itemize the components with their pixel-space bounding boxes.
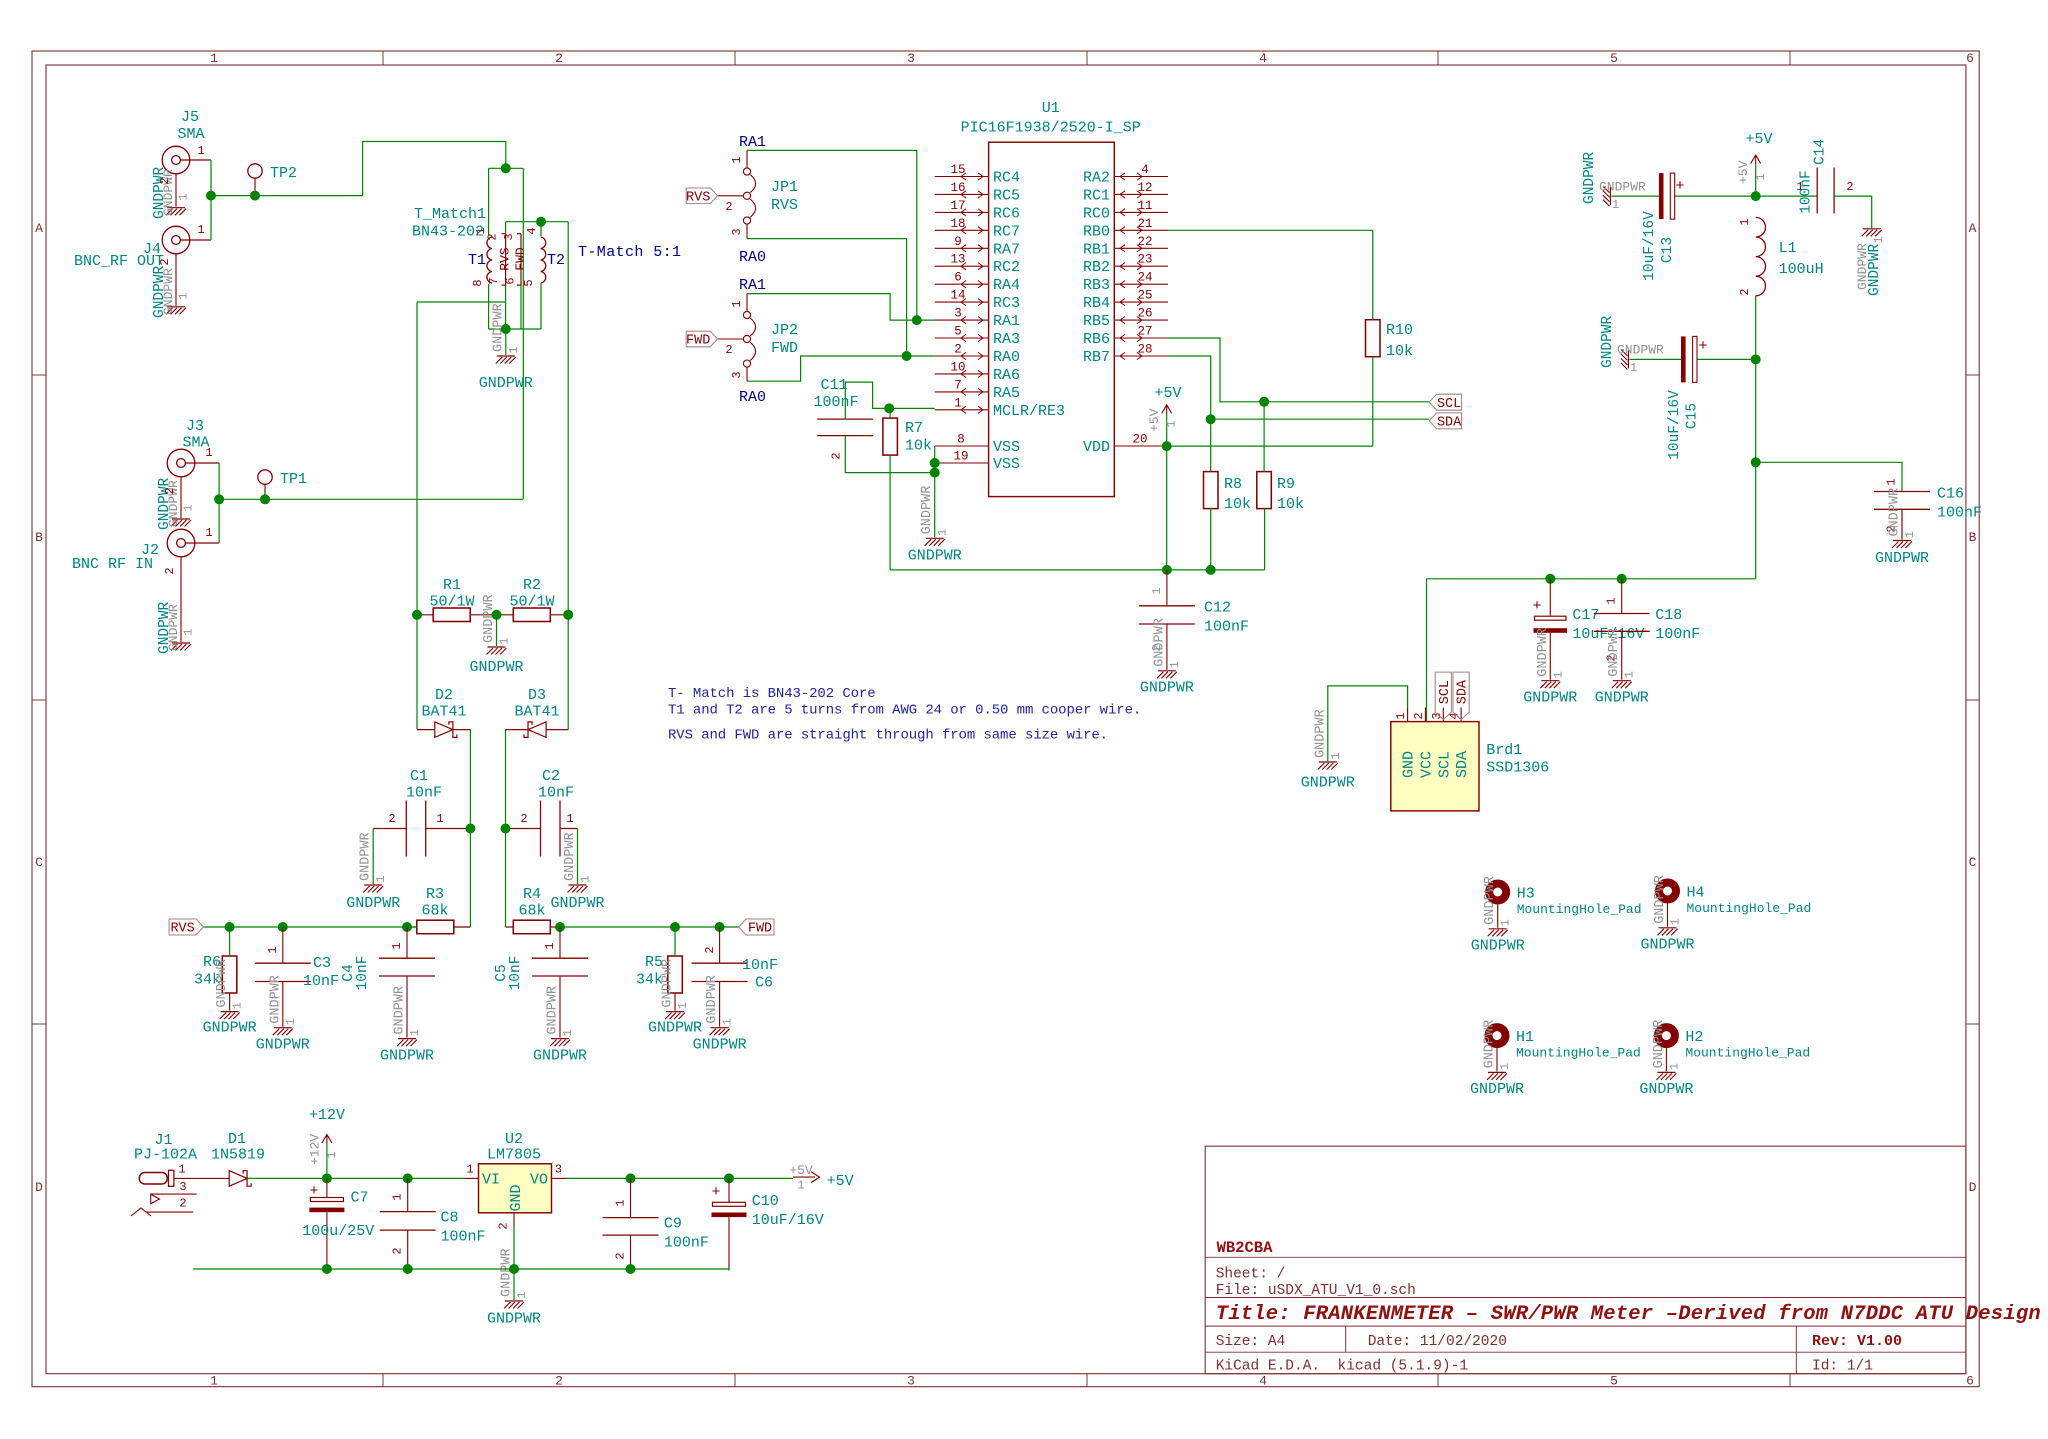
wire R10 bottom — [1372, 357, 1374, 446]
junction R1 R2 mid — [492, 610, 502, 620]
svg-text:GNDPWR: GNDPWR — [1607, 628, 1622, 677]
ground C12 — [1157, 671, 1177, 679]
svg-text:1: 1 — [936, 529, 950, 536]
svg-text:GNDPWR: GNDPWR — [1313, 709, 1328, 758]
svg-text:2: 2 — [703, 946, 717, 953]
global label SDA at Brd1 — [1453, 672, 1469, 719]
svg-text:3: 3 — [730, 371, 744, 378]
svg-text:10k: 10k — [1224, 496, 1251, 513]
svg-text:BNC RF IN: BNC RF IN — [72, 556, 153, 573]
svg-text:VSS: VSS — [993, 456, 1020, 473]
svg-text:1: 1 — [1667, 1063, 1681, 1070]
power +5V top right — [1755, 164, 1757, 197]
svg-text:RA3: RA3 — [993, 331, 1020, 348]
svg-text:GNDPWR: GNDPWR — [563, 832, 578, 881]
svg-text:100nF: 100nF — [1937, 505, 1982, 522]
capacitor C16 — [1874, 491, 1930, 493]
svg-text:GNDPWR: GNDPWR — [469, 659, 523, 676]
svg-text:RA1: RA1 — [739, 277, 766, 294]
svg-text:J3: J3 — [186, 418, 204, 435]
connector J3 — [167, 449, 195, 477]
svg-text:1: 1 — [178, 1163, 185, 1177]
ground J4 pin2 — [175, 254, 177, 306]
junction SDA R8 — [1206, 414, 1216, 424]
junction +12V C7 — [322, 1173, 332, 1183]
wire transformer tap to R1 — [417, 302, 506, 615]
wire RA1 from JP1 — [747, 150, 917, 320]
svg-text:GNDPWR: GNDPWR — [268, 975, 283, 1024]
svg-text:GNDPWR: GNDPWR — [1471, 938, 1525, 955]
resistor R8 — [1204, 472, 1219, 509]
junction RA0 — [902, 351, 912, 361]
svg-text:GNDPWR: GNDPWR — [661, 959, 676, 1008]
U1 VDD pin — [1114, 445, 1166, 447]
wire J5-J4 pin1 net — [210, 160, 212, 240]
ground R6 — [220, 1012, 240, 1020]
junction R2 right — [563, 610, 573, 620]
svg-text:+12V: +12V — [309, 1107, 345, 1124]
svg-text:+12V: +12V — [308, 1134, 323, 1165]
svg-text:2: 2 — [725, 200, 732, 214]
svg-text:Rev: V1.00: Rev: V1.00 — [1812, 1333, 1902, 1350]
svg-text:GNDPWR: GNDPWR — [908, 548, 962, 565]
svg-text:RB1: RB1 — [1083, 241, 1110, 258]
svg-text:PIC16F1938/2520-I_SP: PIC16F1938/2520-I_SP — [961, 120, 1141, 137]
connector J5 — [162, 146, 190, 174]
ground transformer — [505, 329, 507, 355]
junction C15 L1 — [1751, 354, 1761, 364]
svg-text:10nF: 10nF — [355, 956, 371, 991]
svg-text:GNDPWR: GNDPWR — [1617, 343, 1664, 358]
svg-text:19: 19 — [953, 450, 968, 464]
svg-text:1: 1 — [676, 1002, 690, 1009]
svg-text:1: 1 — [515, 1291, 529, 1298]
svg-text:GND: GND — [1401, 751, 1418, 778]
svg-text:D2: D2 — [435, 687, 453, 704]
svg-text:1: 1 — [1165, 420, 1179, 427]
svg-text:R2: R2 — [523, 577, 541, 594]
svg-text:1: 1 — [1150, 587, 1164, 594]
svg-text:10uF/16V: 10uF/16V — [752, 1212, 824, 1229]
junction J3 wire — [214, 494, 224, 504]
transformer through line RVS — [502, 234, 506, 285]
svg-text:C11: C11 — [820, 377, 847, 394]
global label FWD at JP2 — [686, 331, 717, 347]
connector J2 — [167, 529, 195, 557]
svg-text:R9: R9 — [1277, 476, 1295, 493]
global label SDA — [1429, 413, 1461, 429]
jumper JP2 — [743, 311, 750, 318]
svg-text:GNDPWR: GNDPWR — [1599, 180, 1646, 195]
svg-text:1: 1 — [1498, 1063, 1512, 1070]
svg-text:10k: 10k — [1386, 343, 1413, 360]
svg-text:GNDPWR: GNDPWR — [546, 986, 561, 1035]
svg-text:GNDPWR: GNDPWR — [346, 895, 400, 912]
svg-text:100u/25V: 100u/25V — [302, 1223, 374, 1240]
ground J5 pin2 — [175, 174, 177, 207]
svg-text:H1: H1 — [1516, 1029, 1534, 1046]
svg-text:R1: R1 — [443, 577, 461, 594]
junction VDD — [1162, 441, 1172, 451]
svg-text:50/1W: 50/1W — [509, 594, 554, 611]
svg-text:GNDPWR: GNDPWR — [1640, 937, 1694, 954]
svg-text:SCL: SCL — [1438, 680, 1453, 704]
svg-text:3: 3 — [907, 1374, 915, 1389]
svg-text:R8: R8 — [1224, 476, 1242, 493]
diode D2 — [435, 722, 453, 738]
ground R1 R2 mid — [496, 615, 498, 646]
svg-text:RA5: RA5 — [993, 385, 1020, 402]
wire long vertical to TP1 row — [522, 168, 524, 499]
diode D3 — [528, 722, 546, 738]
resistor R7 — [883, 418, 898, 455]
wire VSS joins — [934, 446, 936, 537]
svg-text:C: C — [35, 855, 43, 870]
junction C18 rail — [1617, 574, 1627, 584]
svg-text:+: + — [1532, 598, 1541, 615]
svg-text:SDA: SDA — [1454, 751, 1471, 778]
wire transformer loop B — [506, 222, 569, 329]
wire RA0 from JP2 — [747, 356, 907, 381]
wire J3-J2 pin1 net — [218, 463, 220, 543]
junction bus R8 — [1206, 565, 1216, 575]
svg-text:RA0: RA0 — [739, 249, 766, 266]
junction bus C7 — [322, 1264, 332, 1274]
svg-text:Title: FRANKENMETER – SWR/PWR: Title: FRANKENMETER – SWR/PWR Meter –Der… — [1216, 1303, 2041, 1326]
svg-text:H4: H4 — [1687, 885, 1705, 902]
wire U2 pin2 to bus — [513, 1227, 515, 1269]
ground H1 — [1487, 1072, 1507, 1080]
svg-text:GNDPWR: GNDPWR — [533, 1048, 587, 1065]
svg-text:GNDPWR: GNDPWR — [1652, 1020, 1667, 1069]
svg-text:1: 1 — [1329, 752, 1343, 759]
svg-text:T1 and T2 are 5 turns from AWG: T1 and T2 are 5 turns from AWG 24 or 0.5… — [668, 703, 1141, 719]
svg-text:+: + — [711, 1184, 720, 1201]
connector J4 — [162, 226, 190, 254]
svg-text:6: 6 — [954, 271, 962, 285]
svg-text:1: 1 — [374, 875, 388, 882]
capacitor C7 — [310, 1198, 343, 1202]
svg-text:Brd1: Brd1 — [1486, 742, 1522, 759]
svg-text:100uH: 100uH — [1779, 261, 1824, 278]
wire VDD down to bus — [1166, 446, 1168, 570]
junction transformer feed — [501, 163, 511, 173]
svg-text:C18: C18 — [1655, 607, 1682, 624]
svg-text:VSS: VSS — [993, 439, 1020, 456]
wire C11 bottom to VSS — [845, 436, 934, 473]
svg-text:100nF: 100nF — [1204, 619, 1249, 636]
wire VDD to R10 — [1167, 445, 1373, 447]
ground C18 — [1612, 681, 1632, 689]
svg-text:T_Match1: T_Match1 — [414, 206, 486, 223]
svg-text:1: 1 — [177, 292, 191, 299]
wire C14 right to ground — [1834, 196, 1872, 228]
resistor R3 — [417, 920, 454, 934]
junction MCLR R7 — [884, 403, 894, 413]
svg-text:1: 1 — [466, 1163, 473, 1177]
junction R5 — [670, 922, 680, 932]
svg-text:1: 1 — [730, 156, 744, 163]
svg-text:100nF: 100nF — [1655, 626, 1700, 643]
svg-text:VO: VO — [530, 1172, 548, 1189]
svg-text:1: 1 — [284, 1018, 298, 1025]
svg-text:100nF: 100nF — [813, 394, 858, 411]
svg-text:1: 1 — [797, 1179, 804, 1193]
svg-text:+: + — [1675, 178, 1684, 195]
svg-text:H2: H2 — [1685, 1029, 1703, 1046]
svg-text:C14: C14 — [1813, 139, 1829, 165]
junction bus C9 — [626, 1264, 636, 1274]
junction +5V L1 — [1751, 191, 1761, 201]
svg-text:MountingHole_Pad: MountingHole_Pad — [1685, 1046, 1810, 1061]
capacitor C8 — [380, 1211, 436, 1213]
svg-text:RC0: RC0 — [1083, 205, 1110, 222]
svg-text:1: 1 — [1499, 919, 1513, 926]
svg-text:100nF: 100nF — [664, 1235, 709, 1252]
svg-text:2: 2 — [555, 51, 563, 66]
svg-text:MountingHole_Pad: MountingHole_Pad — [1687, 901, 1812, 916]
svg-text:SCL: SCL — [1437, 397, 1461, 412]
svg-text:1: 1 — [1872, 236, 1886, 243]
svg-text:T-Match 5:1: T-Match 5:1 — [578, 244, 681, 261]
ground Brd1 — [1318, 762, 1338, 770]
svg-text:GNDPWR: GNDPWR — [161, 268, 176, 315]
svg-text:GNDPWR: GNDPWR — [359, 832, 374, 881]
wire +5V rail to display — [1427, 462, 1756, 721]
Brd1 pins — [1407, 708, 1409, 722]
svg-text:4: 4 — [1259, 1374, 1267, 1389]
diode D1 — [229, 1171, 247, 1187]
svg-text:1: 1 — [1394, 712, 1408, 719]
svg-text:1: 1 — [205, 526, 212, 540]
svg-text:1: 1 — [543, 942, 557, 949]
svg-text:1: 1 — [1903, 531, 1917, 538]
ground J3 pin2 — [180, 477, 182, 518]
svg-text:LM7805: LM7805 — [487, 1147, 541, 1164]
svg-text:1: 1 — [182, 504, 196, 511]
wire D3 to C2 row — [505, 730, 507, 829]
mounting hole H1 — [1489, 1027, 1506, 1044]
ground C2 — [577, 829, 579, 885]
test point TP2 — [248, 164, 262, 178]
svg-text:RB7: RB7 — [1083, 349, 1110, 366]
svg-text:T1: T1 — [468, 252, 486, 269]
svg-text:JP1: JP1 — [771, 179, 798, 196]
mounting hole H3 — [1489, 884, 1506, 901]
resistor R5 — [668, 956, 683, 993]
svg-text:A: A — [35, 221, 43, 236]
ground C4 — [397, 1039, 417, 1047]
svg-text:BAT41: BAT41 — [514, 704, 559, 721]
svg-text:FWD: FWD — [771, 340, 798, 357]
wire L1 to C16 row — [1755, 359, 1757, 462]
transformer winding T2 — [541, 237, 546, 283]
mounting hole H2 — [1658, 1027, 1675, 1044]
ground C14 — [1862, 229, 1882, 237]
wire RA1 to U1 — [917, 319, 935, 321]
svg-text:RA0: RA0 — [739, 389, 766, 406]
svg-text:GNDPWR: GNDPWR — [482, 594, 497, 643]
junction VSS19 — [930, 458, 940, 468]
svg-text:+5V: +5V — [1154, 385, 1181, 402]
svg-text:2: 2 — [497, 1222, 511, 1229]
svg-text:1: 1 — [391, 1193, 405, 1200]
svg-text:+5V: +5V — [827, 1173, 854, 1190]
svg-text:SMA: SMA — [177, 126, 204, 143]
svg-text:WB2CBA: WB2CBA — [1217, 1239, 1274, 1257]
capacitor C3 — [255, 962, 311, 964]
svg-text:7: 7 — [954, 378, 962, 392]
wire C11 top to MCLR — [845, 382, 934, 419]
svg-text:R7: R7 — [905, 420, 923, 437]
junction R6 — [225, 922, 235, 932]
svg-text:+5V: +5V — [1147, 408, 1162, 432]
svg-text:10k: 10k — [905, 438, 932, 455]
svg-text:GNDPWR: GNDPWR — [166, 480, 181, 527]
svg-text:TP2: TP2 — [270, 165, 297, 182]
ground H2 — [1656, 1072, 1676, 1080]
wire RA0 from JP1 — [747, 239, 907, 356]
resistor R2 — [513, 608, 550, 622]
svg-text:1: 1 — [579, 875, 593, 882]
svg-text:3: 3 — [954, 307, 962, 321]
svg-text:GND: GND — [508, 1184, 525, 1211]
svg-text:GNDPWR: GNDPWR — [1855, 243, 1870, 290]
junction U2 ground bus — [509, 1264, 519, 1274]
svg-text:1: 1 — [197, 223, 204, 237]
svg-text:1: 1 — [210, 1374, 218, 1389]
svg-text:GNDPWR: GNDPWR — [1639, 1081, 1693, 1098]
svg-text:J5: J5 — [181, 109, 199, 126]
svg-text:RB0: RB0 — [1083, 223, 1110, 240]
resistor R6 — [222, 956, 237, 993]
svg-text:+5V: +5V — [1745, 131, 1772, 148]
wire U2 out — [566, 1177, 793, 1179]
svg-text:1: 1 — [1623, 671, 1637, 678]
svg-text:C8: C8 — [441, 1210, 459, 1227]
global label SCL — [1429, 394, 1461, 410]
svg-text:6: 6 — [1966, 1374, 1974, 1389]
svg-text:RC2: RC2 — [993, 259, 1020, 276]
svg-text:GNDPWR: GNDPWR — [1875, 550, 1929, 567]
svg-text:2: 2 — [830, 452, 844, 459]
svg-text:1: 1 — [325, 1151, 339, 1158]
svg-text:RB2: RB2 — [1083, 259, 1110, 276]
svg-text:5: 5 — [954, 325, 962, 339]
svg-text:JP2: JP2 — [771, 322, 798, 339]
ground left of C13 — [1603, 186, 1611, 206]
capacitor C9 — [603, 1217, 659, 1219]
svg-text:C12: C12 — [1204, 600, 1231, 617]
svg-text:1: 1 — [1885, 478, 1899, 485]
svg-text:2: 2 — [520, 812, 527, 826]
svg-text:10nF: 10nF — [508, 956, 524, 991]
svg-text:GNDPWR: GNDPWR — [1470, 1081, 1524, 1098]
svg-text:2: 2 — [388, 812, 395, 826]
svg-text:68k: 68k — [421, 903, 448, 920]
svg-text:1: 1 — [1604, 597, 1618, 604]
svg-text:RA1: RA1 — [993, 313, 1020, 330]
capacitor C18 — [1594, 613, 1650, 615]
wire C15 — [1629, 358, 1755, 360]
svg-text:RA4: RA4 — [993, 277, 1020, 294]
svg-text:TP1: TP1 — [280, 471, 307, 488]
wire ground bus — [193, 1269, 729, 1270]
svg-text:1: 1 — [1168, 661, 1182, 668]
ground U2 — [513, 1269, 515, 1300]
svg-text:2: 2 — [725, 343, 732, 357]
svg-text:RVS: RVS — [498, 247, 513, 271]
svg-text:+: + — [1698, 338, 1707, 355]
wire D1 to U2 — [247, 1177, 465, 1179]
capacitor C13 — [1659, 173, 1664, 219]
svg-text:GNDPWR: GNDPWR — [1140, 680, 1194, 697]
capacitor C14 — [1816, 168, 1818, 214]
svg-text:7: 7 — [487, 277, 501, 284]
svg-text:+: + — [309, 1183, 318, 1200]
wire RA1 from JP2 — [747, 294, 917, 321]
svg-text:1: 1 — [1612, 198, 1619, 212]
svg-text:6: 6 — [504, 277, 518, 284]
svg-text:10k: 10k — [1277, 496, 1304, 513]
svg-text:GNDPWR: GNDPWR — [1301, 775, 1355, 792]
svg-text:SSD1306: SSD1306 — [1486, 760, 1549, 777]
svg-text:5: 5 — [1610, 1374, 1618, 1389]
svg-text:L1: L1 — [1779, 240, 1797, 257]
svg-text:VCC: VCC — [1418, 751, 1435, 778]
svg-text:10nF: 10nF — [742, 957, 778, 974]
svg-text:GNDPWR: GNDPWR — [393, 986, 408, 1035]
svg-text:B: B — [35, 530, 43, 545]
svg-text:1: 1 — [266, 946, 280, 953]
svg-text:Id: 1/1: Id: 1/1 — [1812, 1359, 1873, 1375]
svg-text:GNDPWR: GNDPWR — [1600, 315, 1616, 368]
junction C1 D2 — [465, 824, 475, 834]
svg-text:GNDPWR: GNDPWR — [1595, 690, 1649, 707]
wire C2 down to R4 — [505, 829, 507, 928]
svg-text:MountingHole_Pad: MountingHole_Pad — [1516, 1046, 1641, 1061]
svg-text:1: 1 — [231, 1002, 245, 1009]
svg-text:1: 1 — [1754, 173, 1768, 180]
wire TP1 row — [219, 498, 523, 500]
svg-text:1: 1 — [954, 396, 962, 410]
svg-text:MCLR/RE3: MCLR/RE3 — [993, 403, 1065, 420]
svg-text:RC6: RC6 — [993, 205, 1020, 222]
ground C5 — [550, 1039, 570, 1047]
svg-text:RA7: RA7 — [993, 241, 1020, 258]
svg-text:Size: A4: Size: A4 — [1216, 1334, 1286, 1350]
svg-text:2: 2 — [486, 233, 500, 240]
svg-text:34k: 34k — [636, 972, 663, 989]
svg-text:D1: D1 — [228, 1131, 246, 1148]
svg-text:RVS and FWD are straight throu: RVS and FWD are straight through from sa… — [668, 728, 1108, 744]
svg-text:20: 20 — [1132, 433, 1147, 447]
capacitor C2 — [540, 801, 542, 857]
svg-text:RB6: RB6 — [1083, 331, 1110, 348]
svg-text:U1: U1 — [1042, 100, 1060, 117]
svg-text:GNDPWR: GNDPWR — [203, 1020, 257, 1037]
transformer winding T1 — [487, 237, 492, 283]
capacitor C5 — [532, 957, 588, 959]
ground U1 VSS — [925, 538, 945, 546]
svg-text:1: 1 — [561, 1029, 575, 1036]
svg-text:C: C — [1969, 855, 1977, 870]
svg-text:FWD: FWD — [513, 247, 528, 271]
svg-text:10nF: 10nF — [303, 973, 339, 990]
svg-text:C17: C17 — [1572, 607, 1599, 624]
wire R2 right to D3 — [567, 615, 569, 730]
resistor R10 — [1366, 320, 1381, 357]
